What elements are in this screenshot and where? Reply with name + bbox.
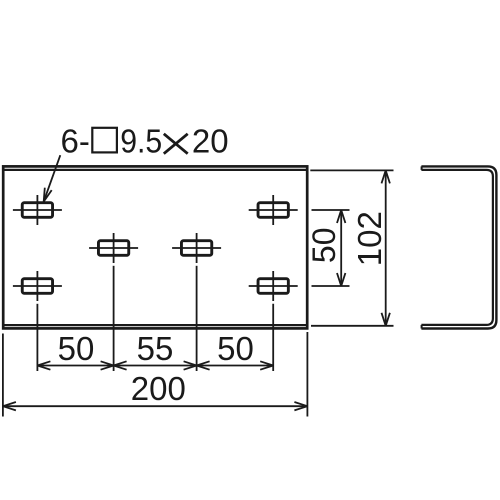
dimension line 200 xyxy=(3,405,308,407)
slot hole 3 (middle-left) xyxy=(89,233,138,263)
svg-text:6-: 6- xyxy=(61,123,90,160)
extension line bottom for 50 vertical xyxy=(312,285,350,287)
svg-text:9.5: 9.5 xyxy=(120,123,162,160)
extension line bottom for 102 xyxy=(311,325,394,327)
label multiplication sign xyxy=(164,134,188,154)
slot hole 1 (top-left) xyxy=(13,195,62,225)
slot hole 5 (top-right) xyxy=(249,195,298,225)
extension line from slot 4 xyxy=(196,266,198,371)
plate outline (front view) xyxy=(3,166,307,328)
side view end caps xyxy=(421,166,423,170)
svg-text:50: 50 xyxy=(306,228,342,264)
dimension line 102 xyxy=(385,170,387,325)
leader arrow to slot hole 1 xyxy=(44,155,61,201)
extension line top for 50 vertical xyxy=(312,209,350,211)
slot hole 4 (middle-right) xyxy=(172,233,221,263)
bend line bottom xyxy=(4,324,306,326)
slot hole 2 (bottom-left) xyxy=(13,271,62,301)
side view inner contour xyxy=(421,170,493,325)
dimension line 50 vertical xyxy=(340,210,342,286)
svg-text:55: 55 xyxy=(137,330,174,367)
arrowheads chain dim xyxy=(37,361,273,369)
svg-text:50: 50 xyxy=(217,330,254,367)
svg-text:50: 50 xyxy=(58,330,95,367)
svg-text:200: 200 xyxy=(131,370,186,407)
arrowheads 102 xyxy=(382,170,390,325)
arrowheads 50 vertical xyxy=(337,210,345,286)
svg-text:20: 20 xyxy=(192,123,229,160)
dimension chain line 50/55/50 xyxy=(37,365,273,367)
extension line top for 102 xyxy=(310,169,393,171)
extension line from slot 3 xyxy=(113,266,115,371)
square symbol in label xyxy=(92,128,117,153)
bend line top xyxy=(4,169,306,171)
extension line right for 200 xyxy=(306,332,308,417)
side view outer contour xyxy=(421,166,496,328)
extension line from slot 6 xyxy=(272,304,274,371)
svg-text:102: 102 xyxy=(351,211,388,266)
arrowheads 200 xyxy=(3,402,308,410)
extension line from slot 2 xyxy=(36,304,38,371)
slot hole 6 (bottom-right) xyxy=(249,271,298,301)
extension line left for 200 xyxy=(2,334,4,417)
